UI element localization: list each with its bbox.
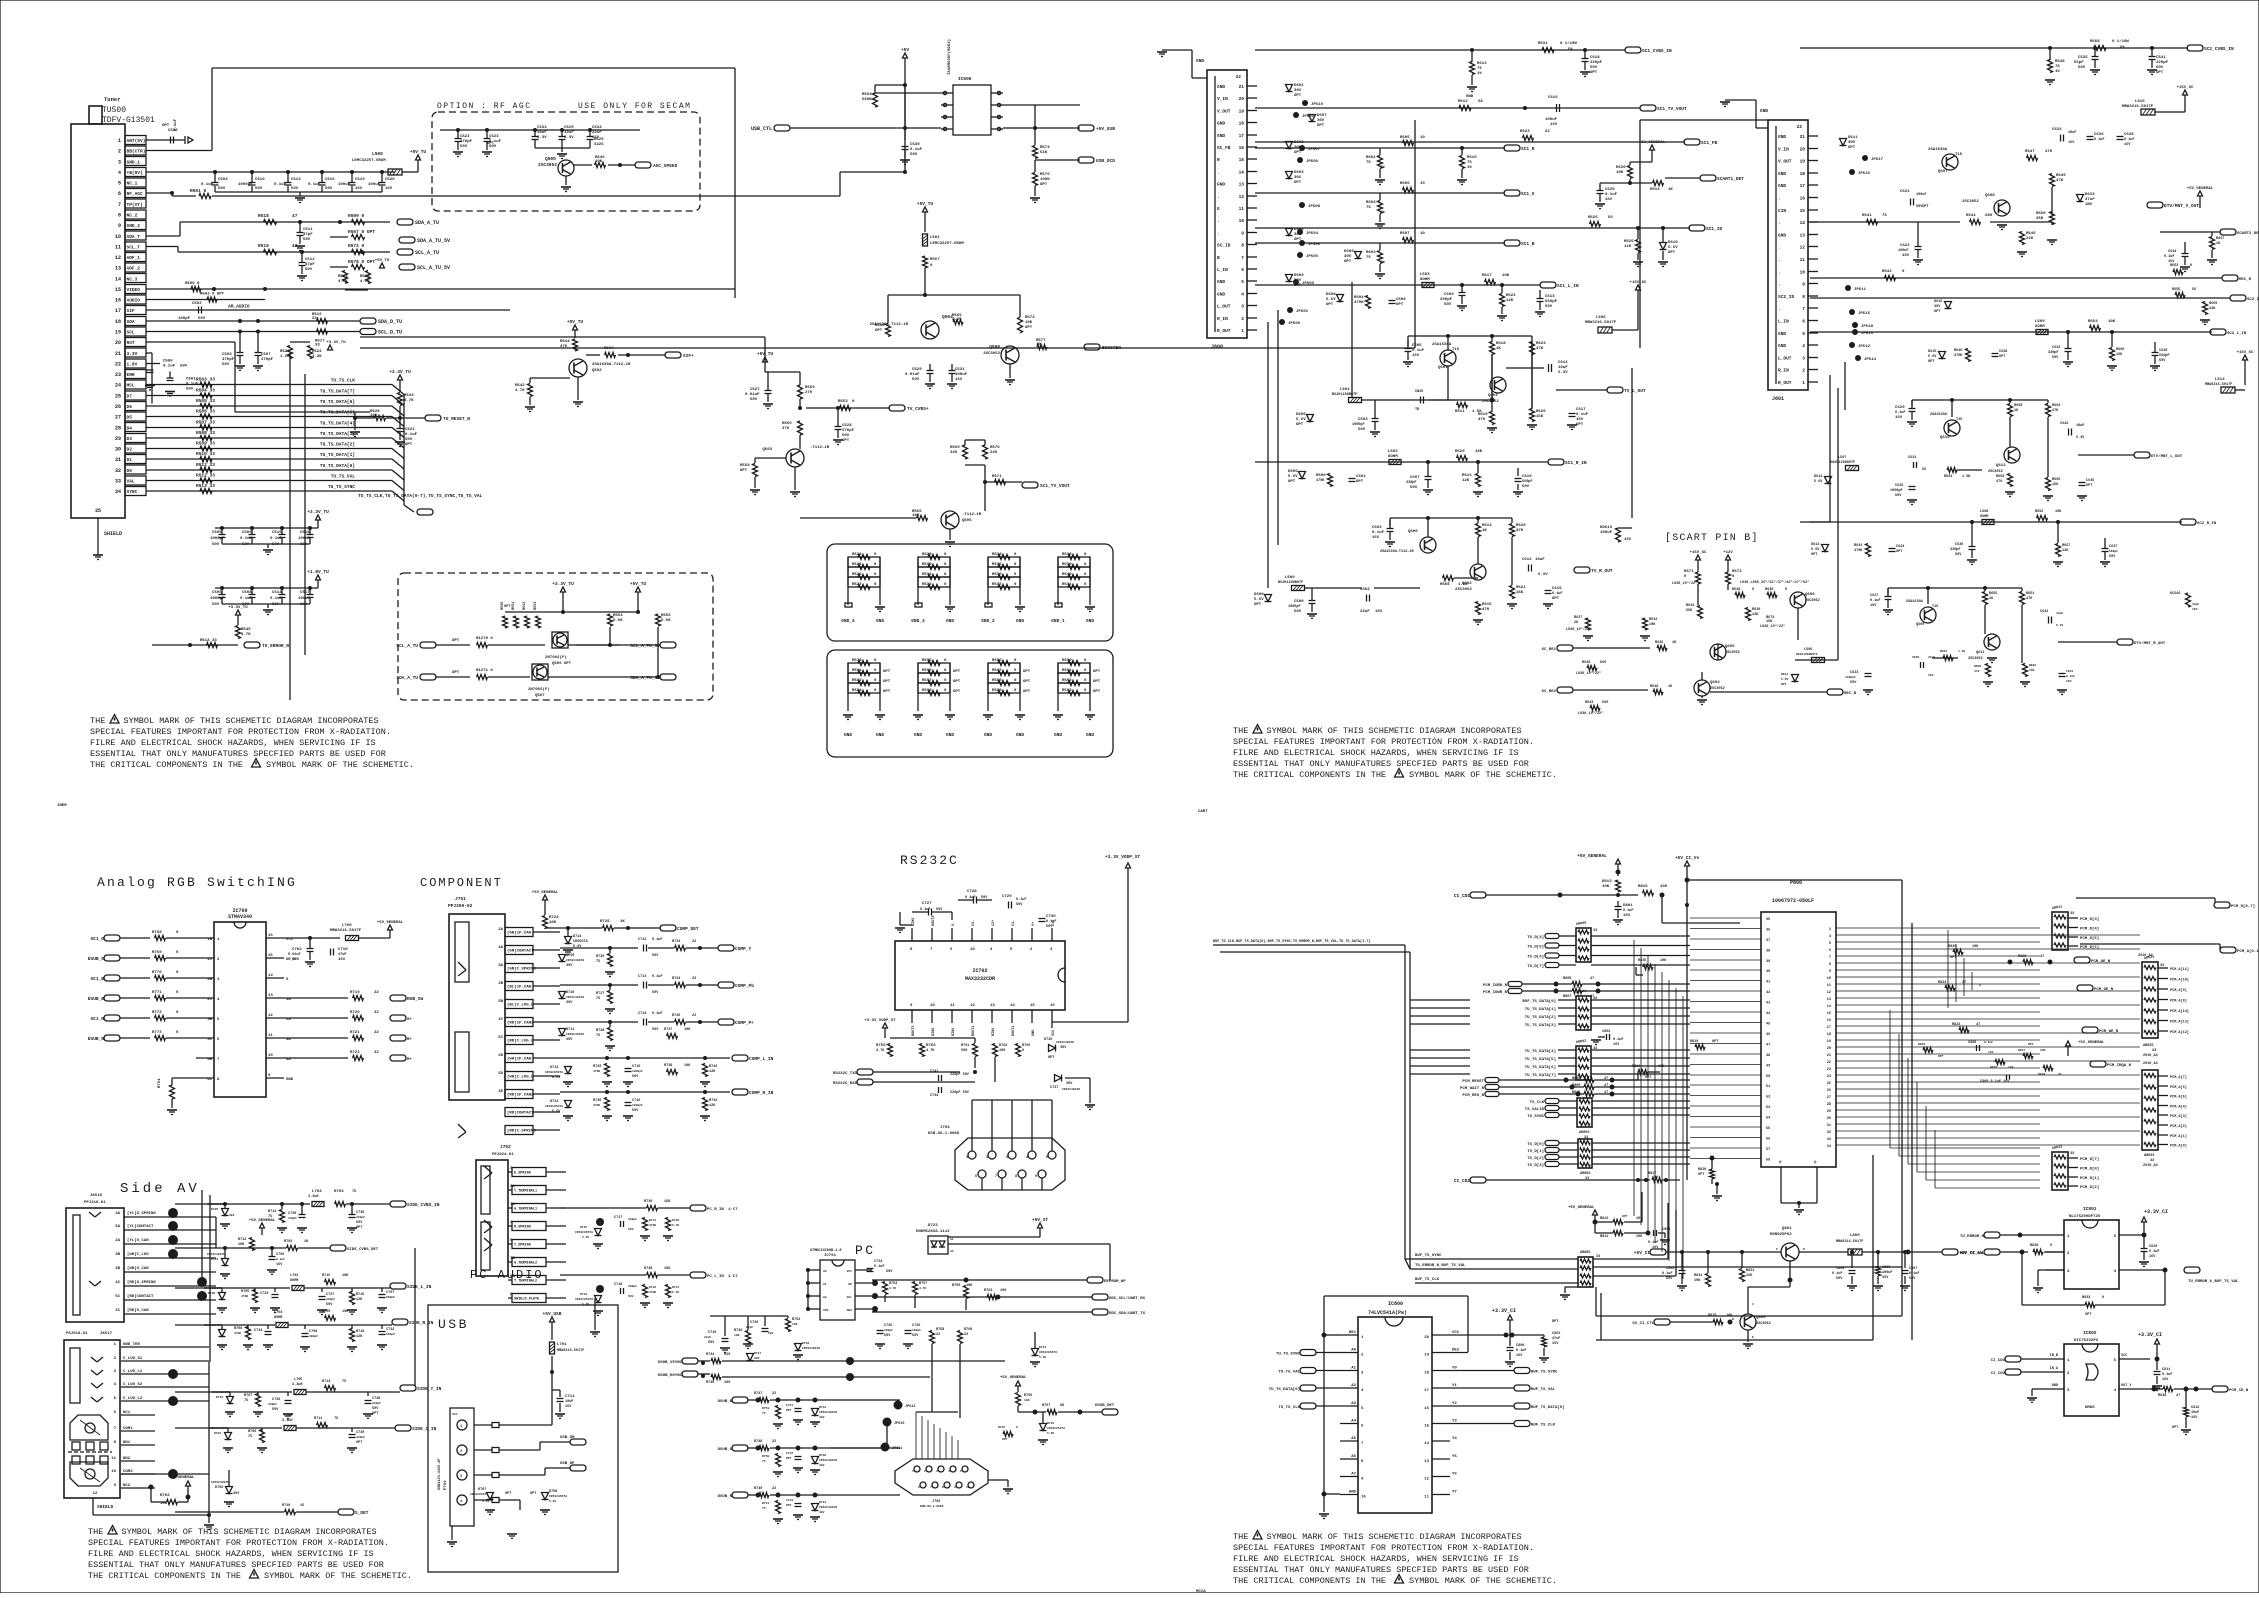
svg-text:[YL]O_SPRING: [YL]O_SPRING bbox=[127, 1211, 156, 1216]
svg-text:54: 54 bbox=[1766, 1117, 1770, 1121]
svg-text:JP518: JP518 bbox=[1861, 325, 1874, 329]
svg-text:C505: C505 bbox=[212, 531, 222, 535]
svg-text:14: 14 bbox=[268, 974, 273, 978]
svg-text:18: 18 bbox=[1800, 171, 1806, 177]
svg-text:5.6V: 5.6V bbox=[1781, 678, 1788, 681]
svg-text:C522: C522 bbox=[460, 135, 470, 139]
svg-text:R772: R772 bbox=[152, 1011, 162, 1015]
svg-text:50V: 50V bbox=[1444, 303, 1452, 307]
svg-text:50V: 50V bbox=[884, 1334, 891, 1338]
svg-text:Q507: Q507 bbox=[535, 694, 545, 698]
svg-text:.: . bbox=[1778, 246, 1781, 251]
svg-text:BUF_TS_SYNC: BUF_TS_SYNC bbox=[1531, 1371, 1558, 1375]
svg-text:ESSENTIAL THAT ONLY MANUFATURE: ESSENTIAL THAT ONLY MANUFATURES SPECFIED… bbox=[1233, 759, 1529, 769]
svg-text:2A: 2A bbox=[115, 1239, 120, 1243]
svg-text:D801: D801 bbox=[1623, 904, 1633, 908]
svg-text:37: 37 bbox=[1766, 939, 1770, 943]
svg-text:75: 75 bbox=[1366, 256, 1371, 260]
svg-text:C729: C729 bbox=[1002, 895, 1012, 899]
svg-text:8: 8 bbox=[114, 1441, 117, 1445]
svg-text:Q600: Q600 bbox=[1408, 530, 1418, 534]
svg-text:L_IN: L_IN bbox=[1217, 267, 1228, 273]
svg-text:Q601: Q601 bbox=[1438, 366, 1448, 370]
svg-text:SDA: SDA bbox=[127, 319, 135, 325]
svg-text:50V: 50V bbox=[460, 145, 468, 149]
svg-text:9: 9 bbox=[1361, 1478, 1364, 1482]
svg-text:GND: GND bbox=[1778, 343, 1786, 349]
svg-text:C730: C730 bbox=[1046, 915, 1056, 919]
svg-text:GND: GND bbox=[1217, 121, 1225, 127]
svg-text:Q605: Q605 bbox=[1725, 645, 1735, 649]
svg-text:75: 75 bbox=[248, 1435, 252, 1439]
svg-text:SC1_CVBS_IN: SC1_CVBS_IN bbox=[1642, 48, 1672, 54]
svg-text:D605: D605 bbox=[1288, 470, 1298, 474]
svg-text:R514 33: R514 33 bbox=[200, 639, 217, 643]
svg-text:DTV/MNT_V_OUT: DTV/MNT_V_OUT bbox=[2164, 203, 2199, 209]
svg-text:560pF: 560pF bbox=[386, 1296, 395, 1299]
svg-text:11: 11 bbox=[1827, 984, 1831, 988]
svg-text:R503 33: R503 33 bbox=[196, 377, 215, 383]
svg-text:+5V_TU: +5V_TU bbox=[917, 201, 934, 207]
svg-text:13: 13 bbox=[115, 266, 121, 272]
svg-text:JP502: JP502 bbox=[1302, 115, 1315, 119]
svg-text:3.3uH: 3.3uH bbox=[282, 1419, 293, 1423]
svg-text:56: 56 bbox=[2192, 288, 2196, 292]
svg-text:50V: 50V bbox=[292, 958, 300, 962]
svg-text:L507: L507 bbox=[1838, 456, 1846, 460]
svg-text:SDA_A_TU_5V: SDA_A_TU_5V bbox=[630, 675, 660, 681]
svg-text:0: 0 bbox=[1022, 1049, 1024, 1053]
svg-text:50V: 50V bbox=[272, 1408, 279, 1412]
svg-text:R735: R735 bbox=[672, 1014, 680, 1018]
svg-text:COMP_Pb: COMP_Pb bbox=[735, 983, 754, 989]
svg-text:3: 3 bbox=[114, 1370, 117, 1374]
svg-text:6.3V: 6.3V bbox=[1558, 371, 1568, 375]
svg-text:15: 15 bbox=[300, 1504, 304, 1508]
svg-text:JK617: JK617 bbox=[100, 1332, 113, 1336]
svg-text:50V: 50V bbox=[291, 187, 299, 191]
svg-text:DOUT1: DOUT1 bbox=[1012, 1025, 1016, 1036]
svg-text:1000pF: 1000pF bbox=[1845, 676, 1856, 679]
svg-text:C604: C604 bbox=[1372, 526, 1382, 530]
svg-text:GND: GND bbox=[1466, 95, 1474, 99]
svg-text:31: 31 bbox=[115, 457, 121, 463]
svg-text:0: 0 bbox=[1902, 270, 1905, 274]
svg-text:OPT: OPT bbox=[883, 670, 891, 674]
svg-text:0.1uF: 0.1uF bbox=[276, 1258, 285, 1261]
svg-text:10: 10 bbox=[115, 234, 121, 240]
svg-text:56: 56 bbox=[1922, 468, 1926, 472]
svg-text:L508: L508 bbox=[1980, 510, 1988, 514]
svg-text:C531: C531 bbox=[955, 368, 965, 372]
svg-text:R621: R621 bbox=[1516, 586, 1526, 590]
svg-text:D709: D709 bbox=[566, 954, 574, 958]
svg-text:1000pF: 1000pF bbox=[210, 537, 225, 541]
svg-text:1000pF: 1000pF bbox=[1288, 605, 1301, 609]
svg-text:6: 6 bbox=[950, 948, 953, 952]
svg-text:560pF: 560pF bbox=[2109, 550, 2118, 553]
svg-text:R543: R543 bbox=[404, 394, 414, 398]
svg-text:10K: 10K bbox=[792, 1323, 798, 1326]
svg-text:470: 470 bbox=[1974, 670, 1980, 673]
svg-text:C722: C722 bbox=[786, 1452, 793, 1455]
svg-text:330pF: 330pF bbox=[1440, 298, 1453, 302]
svg-text:R629: R629 bbox=[1455, 450, 1465, 454]
svg-text:5.6V: 5.6V bbox=[1811, 548, 1820, 552]
svg-text:3: 3 bbox=[1006, 1156, 1008, 1160]
svg-text:R554: R554 bbox=[613, 614, 623, 618]
svg-text:4.7K: 4.7K bbox=[404, 399, 414, 403]
svg-text:OPT: OPT bbox=[2172, 1426, 2178, 1430]
svg-text:30V: 30V bbox=[1344, 255, 1352, 259]
svg-text:16V: 16V bbox=[1882, 1276, 1889, 1280]
svg-text:16V: 16V bbox=[1375, 610, 1383, 614]
svg-text:1NV: 1NV bbox=[2085, 203, 2093, 207]
svg-text:R559: R559 bbox=[805, 386, 815, 390]
svg-text:560: 560 bbox=[1600, 661, 1606, 665]
svg-text:V_OUT: V_OUT bbox=[1217, 109, 1231, 115]
svg-text:C643: C643 bbox=[2066, 670, 2073, 673]
svg-text:R758: R758 bbox=[936, 1328, 944, 1332]
svg-text:5.1K: 5.1K bbox=[672, 1291, 679, 1294]
svg-text:PCM_A[3]: PCM_A[3] bbox=[2170, 1114, 2187, 1119]
svg-text:1: 1 bbox=[118, 138, 121, 144]
svg-text:C727: C727 bbox=[922, 902, 932, 906]
svg-text:39: 39 bbox=[1766, 960, 1770, 964]
svg-text:100: 100 bbox=[2008, 1066, 2014, 1069]
svg-text:9: 9 bbox=[954, 1486, 956, 1489]
svg-text:R669: R669 bbox=[2209, 302, 2217, 306]
svg-text:PCM_D[0-7]: PCM_D[0-7] bbox=[2231, 904, 2255, 909]
svg-text:46: 46 bbox=[1766, 1033, 1770, 1037]
svg-text:5.6V: 5.6V bbox=[482, 1500, 489, 1503]
svg-text:R771: R771 bbox=[152, 991, 162, 995]
svg-text:S: S bbox=[286, 978, 289, 982]
svg-text:GND: GND bbox=[1778, 171, 1786, 177]
svg-text:27: 27 bbox=[115, 415, 121, 421]
svg-text:R645: R645 bbox=[1954, 349, 1962, 353]
svg-text:5.6V: 5.6V bbox=[552, 1110, 561, 1114]
svg-text:SCART1_DET: SCART1_DET bbox=[1717, 176, 1744, 182]
svg-text:R825: R825 bbox=[1990, 1066, 1997, 1069]
svg-text:SC1_G: SC1_G bbox=[1521, 191, 1535, 197]
svg-text:4.7K: 4.7K bbox=[876, 1049, 885, 1053]
svg-text:CI_CD1: CI_CD1 bbox=[1991, 1359, 2006, 1363]
svg-text:OPT: OPT bbox=[1317, 124, 1325, 128]
svg-text:RIN1: RIN1 bbox=[992, 1028, 996, 1036]
svg-text:0.1uF: 0.1uF bbox=[1605, 193, 1618, 197]
svg-text:R763: R763 bbox=[984, 1289, 992, 1293]
svg-text:PCM_IRQA_N: PCM_IRQA_N bbox=[2107, 1064, 2132, 1068]
svg-text:R624: R624 bbox=[1536, 342, 1546, 346]
svg-text:10uF: 10uF bbox=[2076, 424, 2084, 428]
svg-text:50V: 50V bbox=[1358, 428, 1366, 432]
svg-text:R571: R571 bbox=[992, 475, 1002, 479]
svg-text:GND_2: GND_2 bbox=[981, 618, 995, 624]
svg-text:6.3V: 6.3V bbox=[2076, 436, 2085, 440]
svg-text:+5V_GENERAL: +5V_GENERAL bbox=[2078, 1041, 2105, 1045]
svg-text:GND: GND bbox=[876, 618, 884, 624]
svg-text:+5V_GENERAL: +5V_GENERAL bbox=[1639, 141, 1666, 145]
svg-text:R521: R521 bbox=[338, 275, 348, 279]
svg-text:OPT: OPT bbox=[1040, 183, 1048, 187]
svg-text:4: 4 bbox=[1361, 1389, 1364, 1393]
svg-text:C504: C504 bbox=[218, 178, 228, 182]
svg-text:C811: C811 bbox=[2162, 1368, 2170, 1372]
svg-text:50V: 50V bbox=[218, 187, 226, 191]
svg-text:TR: TR bbox=[1415, 408, 1420, 412]
svg-text:15K: 15K bbox=[1766, 620, 1773, 624]
svg-text:270pF: 270pF bbox=[842, 429, 855, 433]
svg-text:13: 13 bbox=[990, 1004, 995, 1008]
svg-text:32: 32 bbox=[1827, 1131, 1831, 1135]
svg-text:2: 2 bbox=[118, 149, 121, 155]
svg-text:1K: 1K bbox=[1482, 529, 1487, 533]
svg-text:1: 1 bbox=[966, 1156, 968, 1160]
svg-text:ANT(5V): ANT(5V) bbox=[127, 138, 146, 144]
svg-text:16V: 16V bbox=[1412, 354, 1420, 358]
svg-text:12K: 12K bbox=[1506, 299, 1514, 303]
svg-text:PCM_A[14]: PCM_A[14] bbox=[2170, 1009, 2189, 1014]
svg-text:GND: GND bbox=[984, 732, 992, 738]
svg-text:16V: 16V bbox=[338, 958, 346, 962]
svg-text:Y7: Y7 bbox=[1452, 1491, 1457, 1495]
svg-text:50V: 50V bbox=[632, 1075, 639, 1079]
svg-text:C511: C511 bbox=[303, 228, 313, 232]
svg-text:10: 10 bbox=[111, 1470, 116, 1474]
svg-text:COMP_Y: COMP_Y bbox=[735, 946, 752, 952]
svg-text:Side AV: Side AV bbox=[120, 1181, 200, 1197]
svg-text:WP: WP bbox=[848, 1283, 852, 1286]
svg-text:75: 75 bbox=[244, 1399, 248, 1403]
svg-text:50V: 50V bbox=[1895, 494, 1902, 498]
svg-text:VCC: VCC bbox=[2121, 1354, 2127, 1358]
svg-text:3.3uH: 3.3uH bbox=[308, 1195, 319, 1199]
svg-text:C809 0.1uF 16V: C809 0.1uF 16V bbox=[1980, 1080, 2010, 1084]
svg-text:OPT: OPT bbox=[405, 443, 413, 447]
svg-text:8: 8 bbox=[1829, 963, 1831, 967]
svg-text:.: . bbox=[1778, 307, 1781, 312]
svg-text:SYMBOL MARK OF THE SCHEMETIC.: SYMBOL MARK OF THE SCHEMETIC. bbox=[1409, 770, 1557, 780]
svg-text:0: 0 bbox=[2102, 1296, 2104, 1300]
svg-text:DSUB_B: DSUB_B bbox=[718, 1400, 733, 1404]
svg-text:R650: R650 bbox=[2036, 212, 2046, 216]
svg-text:6: 6 bbox=[1361, 1425, 1364, 1429]
svg-text:14: 14 bbox=[1239, 170, 1245, 176]
svg-text:CD53C30GTH: CD53C30GTH bbox=[819, 1459, 837, 1462]
svg-text:30V: 30V bbox=[1317, 119, 1325, 123]
svg-text:SCL: SCL bbox=[127, 330, 135, 336]
svg-text:R720: R720 bbox=[350, 1011, 360, 1015]
svg-text:STMAV340: STMAV340 bbox=[228, 914, 252, 920]
svg-text:.: . bbox=[1778, 221, 1781, 226]
svg-text:R641: R641 bbox=[1862, 214, 1872, 218]
svg-text:10K: 10K bbox=[1602, 885, 1610, 889]
svg-text:D610: D610 bbox=[1668, 241, 1678, 245]
svg-text:+5V_CI: +5V_CI bbox=[1634, 1250, 1651, 1256]
svg-text:IC800: IC800 bbox=[1388, 1301, 1403, 1307]
svg-text:0.1uF: 0.1uF bbox=[1372, 531, 1385, 535]
svg-text:Q609: Q609 bbox=[1916, 623, 1924, 627]
svg-text:10: 10 bbox=[1420, 182, 1425, 186]
svg-text:1000pF: 1000pF bbox=[238, 183, 253, 187]
svg-text:4: 4 bbox=[948, 1470, 950, 1473]
svg-text:2SC3052: 2SC3052 bbox=[1455, 588, 1472, 592]
svg-text:S: S bbox=[1776, 1248, 1778, 1251]
svg-text:1.5K: 1.5K bbox=[1458, 583, 1468, 587]
svg-text:FILRE AND ELECTRICAL SHOCK HAZ: FILRE AND ELECTRICAL SHOCK HAZARDS, WHEN… bbox=[1233, 748, 1519, 758]
svg-text:57: 57 bbox=[1766, 1148, 1770, 1152]
svg-text:R626: R626 bbox=[1588, 216, 1598, 220]
svg-text:7: 7 bbox=[1241, 255, 1244, 261]
svg-text:SCART2_DET: SCART2_DET bbox=[2237, 232, 2259, 236]
svg-text:2: 2 bbox=[217, 958, 220, 962]
svg-text:16: 16 bbox=[1827, 1019, 1831, 1023]
svg-text:R710: R710 bbox=[282, 1504, 290, 1508]
svg-text:16V: 16V bbox=[1895, 416, 1903, 420]
svg-text:5.6V: 5.6V bbox=[1039, 1356, 1046, 1359]
svg-text:470pF: 470pF bbox=[460, 140, 473, 144]
svg-text:OPT: OPT bbox=[2156, 71, 2164, 75]
svg-text:R1271 0: R1271 0 bbox=[476, 669, 493, 673]
svg-text:9: 9 bbox=[1802, 282, 1805, 288]
svg-text:BUF_TS_DATA[0]: BUF_TS_DATA[0] bbox=[1531, 1405, 1565, 1410]
svg-text:OPT: OPT bbox=[1023, 690, 1031, 694]
svg-text:R665: R665 bbox=[2052, 478, 2060, 482]
svg-text:C712: C712 bbox=[638, 938, 646, 942]
svg-text:GND: GND bbox=[946, 732, 954, 738]
svg-text:8: 8 bbox=[217, 1078, 220, 1082]
svg-text:C622: C622 bbox=[1900, 244, 1910, 248]
svg-text:21: 21 bbox=[115, 351, 121, 357]
svg-text:R737: R737 bbox=[664, 1028, 672, 1032]
svg-text:R739: R739 bbox=[644, 1200, 652, 1204]
svg-text:100uF: 100uF bbox=[1600, 531, 1613, 535]
svg-text:10K: 10K bbox=[1025, 321, 1033, 325]
svg-text:47: 47 bbox=[1766, 1044, 1770, 1048]
svg-text:12K: 12K bbox=[709, 1104, 716, 1108]
svg-text:10K: 10K bbox=[1636, 1235, 1643, 1239]
svg-text:0.1uF: 0.1uF bbox=[1516, 1349, 1527, 1353]
svg-text:11: 11 bbox=[268, 1034, 273, 1038]
svg-text:R509 33: R509 33 bbox=[196, 441, 215, 447]
svg-text:R603: R603 bbox=[1366, 251, 1376, 255]
svg-text:PCM_D[3]: PCM_D[3] bbox=[2080, 917, 2099, 922]
svg-text:0.01uF: 0.01uF bbox=[745, 393, 760, 397]
svg-text:R658: R658 bbox=[2014, 404, 2022, 408]
svg-text:2SA1530A: 2SA1530A bbox=[1928, 148, 1948, 152]
svg-text:SYMBOL MARK OF THIS SCHEMETIC: SYMBOL MARK OF THIS SCHEMETIC DIAGRAM IN… bbox=[1267, 726, 1522, 736]
svg-text:13: 13 bbox=[1800, 233, 1806, 239]
svg-text:PCM_A[11]: PCM_A[11] bbox=[2170, 967, 2189, 972]
svg-text:COMP_DET: COMP_DET bbox=[677, 926, 699, 932]
svg-text:1: 1 bbox=[2067, 1235, 2070, 1239]
svg-text:50V: 50V bbox=[1046, 925, 1053, 929]
svg-text:R632: R632 bbox=[1649, 618, 1657, 622]
svg-text:C508: C508 bbox=[242, 591, 252, 595]
svg-text:0.1uF: 0.1uF bbox=[1909, 1272, 1920, 1276]
svg-text:14: 14 bbox=[1800, 220, 1806, 226]
svg-text:16V: 16V bbox=[1605, 198, 1613, 202]
svg-text:10: 10 bbox=[1420, 232, 1425, 236]
svg-text:50V: 50V bbox=[2156, 66, 2164, 70]
svg-text:R759: R759 bbox=[952, 1284, 960, 1288]
svg-text:16V: 16V bbox=[1988, 1051, 1994, 1054]
svg-text:C718: C718 bbox=[614, 1283, 622, 1287]
svg-text:5: 5 bbox=[118, 181, 121, 187]
svg-text:SDA_T: SDA_T bbox=[127, 234, 141, 240]
svg-text:C642: C642 bbox=[2060, 422, 2068, 426]
svg-text:R647: R647 bbox=[2025, 150, 2035, 154]
svg-text:USB_DM: USB_DM bbox=[560, 1436, 575, 1440]
svg-text:D703: D703 bbox=[214, 1432, 221, 1435]
svg-text:14: 14 bbox=[1424, 1442, 1429, 1446]
svg-text:R631: R631 bbox=[1538, 42, 1548, 46]
svg-text:NC_1: NC_1 bbox=[127, 181, 138, 187]
svg-text:PCM_RESET: PCM_RESET bbox=[1462, 1080, 1484, 1084]
svg-text:[RD]U_CAN: [RD]U_CAN bbox=[127, 1308, 149, 1313]
svg-text:6.3V: 6.3V bbox=[537, 136, 547, 140]
svg-text:LG30_19"/22": LG30_19"/22" bbox=[1672, 581, 1697, 586]
svg-text:R821: R821 bbox=[1746, 1269, 1754, 1273]
svg-text:SIDE_R_IN: SIDE_R_IN bbox=[409, 1320, 434, 1326]
svg-text:15: 15 bbox=[115, 287, 121, 293]
svg-text:5K: 5K bbox=[1060, 1404, 1065, 1408]
svg-text:IC802: IC802 bbox=[2083, 1330, 2097, 1336]
svg-text:R: R bbox=[1217, 157, 1220, 163]
svg-text:C802: C802 bbox=[1602, 1030, 1610, 1034]
svg-text:TU_TS_DATA[6]: TU_TS_DATA[6] bbox=[320, 399, 355, 405]
svg-text:44: 44 bbox=[1766, 1012, 1770, 1016]
svg-text:+3.3V_VODP_ST: +3.3V_VODP_ST bbox=[1105, 854, 1140, 860]
svg-text:SYMBOL MARK OF THIS SCHEMETIC: SYMBOL MARK OF THIS SCHEMETIC DIAGRAM IN… bbox=[124, 716, 379, 726]
svg-text:C512: C512 bbox=[305, 258, 315, 262]
svg-text:.: . bbox=[1217, 171, 1220, 176]
svg-text:0 1/10W: 0 1/10W bbox=[2112, 39, 2129, 44]
svg-text:1·C7: 1·C7 bbox=[728, 1275, 738, 1279]
svg-text:50V: 50V bbox=[652, 991, 659, 995]
svg-text:SYMBOL MARK OF THE SCHEMETIC.: SYMBOL MARK OF THE SCHEMETIC. bbox=[264, 1571, 412, 1581]
svg-text:D612: D612 bbox=[1781, 673, 1788, 676]
svg-text:SPECIAL FEATURES IMPORTANT FOR: SPECIAL FEATURES IMPORTANT FOR PROTECTIO… bbox=[1233, 1543, 1534, 1553]
svg-text:A0: A0 bbox=[1351, 1349, 1356, 1353]
svg-text:R+: R+ bbox=[407, 1058, 412, 1062]
svg-text:30V: 30V bbox=[233, 1492, 240, 1496]
svg-text:R724: R724 bbox=[549, 916, 559, 920]
svg-text:-T112-1R: -T112-1R bbox=[962, 513, 982, 517]
svg-text:D754: D754 bbox=[216, 1396, 223, 1399]
svg-text:L512: L512 bbox=[2215, 378, 2225, 382]
svg-text:[RD]C_LUG_L: [RD]C_LUG_L bbox=[507, 1039, 534, 1044]
svg-text:GND: GND bbox=[1760, 108, 1768, 114]
svg-text:SC1_FB: SC1_FB bbox=[1701, 140, 1718, 146]
svg-text:D716: D716 bbox=[580, 1293, 587, 1296]
svg-text:R542: R542 bbox=[515, 384, 525, 388]
svg-text:47pF: 47pF bbox=[303, 233, 313, 237]
svg-text:D713: D713 bbox=[550, 1100, 558, 1104]
svg-text:J600: J600 bbox=[1211, 344, 1223, 350]
svg-text:SC_ID: SC_ID bbox=[1217, 243, 1231, 249]
svg-text:10K: 10K bbox=[1649, 623, 1656, 627]
svg-text:R553: R553 bbox=[534, 602, 538, 610]
svg-text:9: 9 bbox=[1829, 970, 1831, 974]
svg-text:10K: 10K bbox=[1726, 1314, 1733, 1318]
svg-text:R757: R757 bbox=[919, 1282, 927, 1286]
svg-text:OPT: OPT bbox=[1023, 680, 1031, 684]
svg-text:10: 10 bbox=[1827, 977, 1831, 981]
svg-text:D601: D601 bbox=[1294, 84, 1304, 88]
svg-text:RSR025P03: RSR025P03 bbox=[1770, 1233, 1792, 1237]
